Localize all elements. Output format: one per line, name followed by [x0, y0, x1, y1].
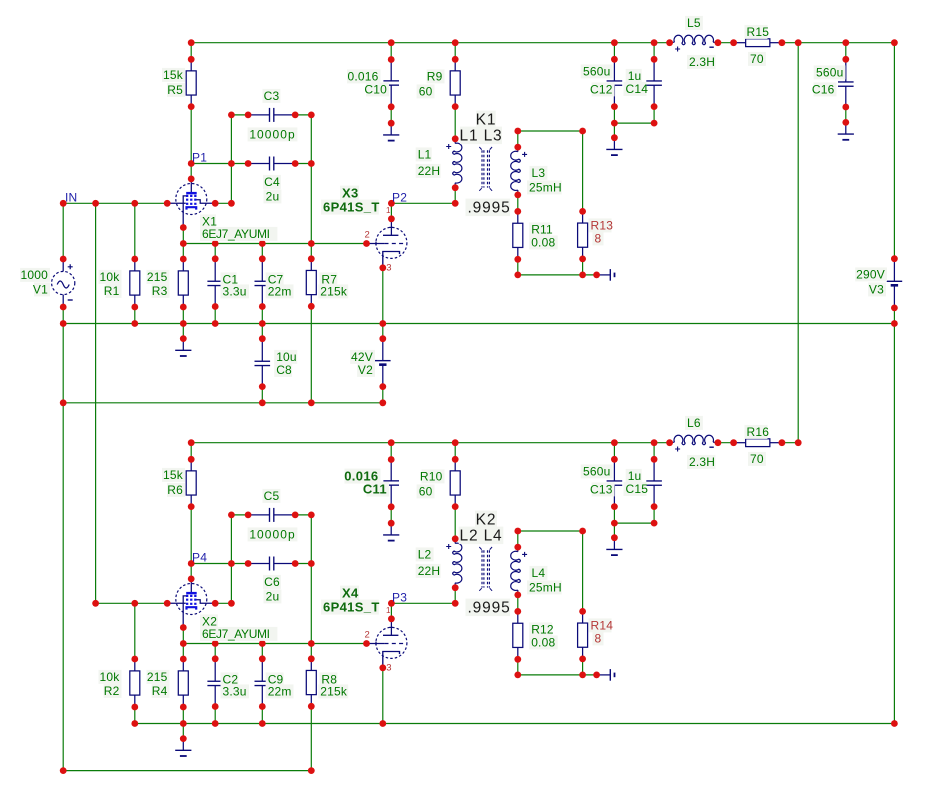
resistor R2: [130, 659, 140, 707]
svg-text:C5: C5: [264, 489, 280, 503]
wire rail to C13: [613, 443, 615, 460]
svg-text:R13: R13: [591, 219, 614, 233]
value label L1 L3: [460, 127, 502, 145]
junction: [188, 176, 195, 183]
wire R6 to P4: [190, 507, 192, 564]
wire rail to C12: [613, 43, 615, 60]
wire to R13: [582, 131, 584, 211]
junction: [180, 720, 187, 727]
wire P1 row left: [191, 163, 248, 165]
wire C1 top: [214, 244, 216, 259]
ground: [597, 269, 615, 281]
value label R3: [152, 284, 170, 298]
junction: [611, 56, 618, 63]
junction: [891, 320, 898, 327]
junction: [308, 767, 315, 774]
junction: [363, 640, 370, 647]
junction: [452, 135, 459, 142]
value label 560u: [814, 65, 846, 79]
junction: [452, 200, 459, 207]
wire C8 bottom: [261, 387, 263, 403]
svg-text:3.3u: 3.3u: [223, 685, 247, 699]
resistor R4: [178, 659, 188, 707]
junction: [60, 399, 67, 406]
junction: [651, 456, 658, 463]
value label C1: [221, 272, 237, 286]
svg-text:C16: C16: [812, 83, 835, 97]
value label C9: [266, 672, 284, 686]
junction: [379, 383, 386, 390]
wire V3 top feed: [893, 43, 895, 259]
junction: [514, 192, 521, 199]
junction: [593, 272, 600, 279]
wire R7 bottom: [310, 306, 312, 403]
junction: [779, 439, 786, 446]
value label C10: [366, 82, 389, 96]
svg-text:R9: R9: [427, 70, 443, 84]
value label 560u: [581, 64, 613, 78]
junction: [212, 600, 219, 607]
svg-text:1000: 1000: [21, 268, 49, 282]
junction: [180, 640, 187, 647]
value label 0.016: [347, 69, 381, 83]
wire rail to R5: [190, 43, 192, 60]
wire rail to C14: [653, 43, 655, 60]
svg-text:C11: C11: [363, 482, 387, 497]
junction: [308, 560, 315, 567]
svg-text:R1: R1: [104, 284, 120, 298]
junction: [579, 208, 586, 215]
junction: [259, 335, 266, 342]
value label R7: [319, 272, 337, 286]
junction: [891, 720, 898, 727]
inductor L3 secondary: [511, 147, 527, 195]
value label 60: [417, 84, 435, 98]
svg-text:22H: 22H: [418, 564, 441, 578]
value label R12: [529, 622, 552, 636]
svg-text:R15: R15: [747, 25, 770, 39]
wire V2 bottom: [382, 387, 384, 403]
wire main rail: [63, 323, 894, 325]
value label R9: [427, 69, 445, 83]
junction: [292, 560, 299, 567]
wire bias rail: [63, 402, 383, 404]
svg-text:560u: 560u: [583, 465, 611, 479]
junction: [180, 224, 187, 231]
junction: [388, 503, 395, 510]
svg-text:70: 70: [750, 452, 764, 466]
svg-text:2: 2: [365, 630, 370, 641]
wire L3 to R11: [517, 195, 519, 212]
junction: [452, 535, 459, 542]
wire R9 to L1: [454, 107, 456, 139]
wire R8 bottom: [310, 706, 312, 770]
svg-text:V2: V2: [358, 363, 373, 377]
value label L5: [685, 16, 703, 30]
value label 42V: [350, 350, 375, 364]
junction: [188, 39, 195, 46]
junction: [259, 383, 266, 390]
resistor R10: [450, 459, 460, 506]
svg-text:.9995: .9995: [468, 200, 511, 217]
value label C8: [274, 363, 292, 377]
wire L4 to R12: [517, 595, 519, 612]
wire R10 to L2: [454, 507, 456, 539]
junction: [379, 264, 386, 271]
junction: [795, 439, 802, 446]
wire X4 cathode: [382, 668, 384, 724]
junction: [180, 335, 187, 342]
junction: [188, 103, 195, 110]
junction: [228, 512, 235, 519]
svg-text:L1: L1: [418, 148, 432, 162]
wire to L3: [517, 131, 519, 147]
wire secondary top: [518, 530, 583, 532]
junction: [452, 439, 459, 446]
value label L2 L4: [459, 527, 504, 545]
value label R4: [152, 684, 170, 698]
junction: [259, 655, 266, 662]
wire C15 down: [653, 507, 655, 523]
svg-text:C10: C10: [364, 83, 387, 97]
junction: [245, 512, 252, 519]
value label 3.3u: [221, 284, 250, 298]
junction: [188, 56, 195, 63]
junction: [131, 256, 138, 263]
value label 2u: [264, 589, 282, 603]
svg-text:R10: R10: [420, 470, 443, 484]
resistor R13: [578, 211, 588, 259]
wire R14 bottom: [582, 659, 584, 675]
svg-text:70: 70: [750, 52, 764, 66]
value label 22H: [416, 564, 441, 578]
wire to anode: [190, 564, 192, 579]
junction: [611, 39, 618, 46]
wire C3 row left: [231, 114, 248, 116]
junction: [188, 560, 195, 567]
svg-text:25mH: 25mH: [529, 181, 562, 195]
value label 6P41S_T: [321, 600, 379, 615]
junction: [308, 255, 315, 262]
wire C7 top: [261, 244, 263, 259]
junction: [180, 304, 187, 311]
capacitor C12: [607, 59, 623, 106]
junction: [60, 304, 67, 311]
wire rail to R6: [190, 443, 192, 460]
wire L-R link: [718, 42, 734, 44]
junction: [60, 767, 67, 774]
junction: [188, 456, 195, 463]
junction: [164, 200, 171, 207]
value label 10k: [99, 270, 122, 284]
junction: [92, 200, 99, 207]
value label R14: [589, 618, 612, 632]
ground: [606, 538, 622, 555]
wire R11 bottom: [517, 259, 519, 275]
junction: [164, 600, 171, 607]
value label 290V: [855, 267, 887, 281]
junction: [651, 103, 658, 110]
svg-text:C13: C13: [590, 483, 613, 497]
svg-text:R3: R3: [152, 284, 168, 298]
junction: [579, 272, 586, 279]
ground: [838, 122, 854, 139]
value label 215k: [318, 284, 348, 298]
junction: [60, 256, 67, 263]
junction: [308, 160, 315, 167]
junction: [388, 103, 395, 110]
value label V3: [868, 282, 886, 296]
svg-text:L3: L3: [532, 166, 546, 180]
svg-text:R16: R16: [747, 425, 770, 439]
wire coupling drop: [310, 515, 312, 644]
wire shared input drop: [95, 203, 97, 603]
wire screen drop: [230, 515, 232, 603]
value label 1u: [626, 69, 642, 83]
junction: [259, 240, 266, 247]
svg-text:K2: K2: [476, 512, 497, 529]
value label 22m: [266, 284, 294, 298]
source V1: [52, 259, 75, 307]
wire R12 bottom: [517, 659, 519, 675]
svg-text:0.08: 0.08: [531, 636, 555, 650]
junction: [611, 120, 618, 127]
capacitor C13: [607, 459, 623, 506]
wire left common drop: [62, 324, 64, 771]
resistor R14: [578, 611, 588, 659]
junction: [651, 120, 658, 127]
value label 10000p: [248, 127, 298, 141]
junction: [666, 39, 673, 46]
value label 70: [748, 52, 766, 66]
wire rail to C11: [390, 443, 392, 460]
junction: [180, 240, 187, 247]
svg-text:R14: R14: [591, 619, 614, 633]
svg-text:3: 3: [386, 262, 391, 273]
junction: [308, 399, 315, 406]
junction: [452, 39, 459, 46]
junction: [891, 305, 898, 312]
svg-text:V3: V3: [869, 283, 884, 297]
wire C5 row right: [295, 514, 311, 516]
inductor L2 primary: [446, 539, 462, 588]
junction: [212, 703, 219, 710]
junction: [452, 456, 459, 463]
value label 8: [593, 631, 604, 645]
value label 22m: [266, 684, 294, 698]
inductor L4 secondary: [511, 547, 527, 595]
junction: [212, 720, 219, 727]
wire C5 row left: [231, 514, 248, 516]
junction: [452, 184, 459, 191]
svg-text:8: 8: [595, 632, 602, 646]
wire top rail left: [191, 42, 669, 44]
junction: [379, 399, 386, 406]
svg-text:22m: 22m: [268, 685, 292, 699]
svg-text:215k: 215k: [320, 285, 348, 299]
junction: [579, 528, 586, 535]
wire cathode row: [183, 243, 366, 245]
capacitor C15: [646, 459, 662, 506]
capacitor C16: [838, 59, 854, 107]
wire screen link: [215, 202, 231, 204]
value label 25mH: [527, 580, 562, 594]
junction: [245, 160, 252, 167]
value label R11: [529, 222, 550, 236]
junction: [259, 255, 266, 262]
svg-text:10u: 10u: [276, 350, 297, 364]
wire L1 to P2: [454, 188, 456, 204]
junction: [212, 655, 219, 662]
junction: [259, 320, 266, 327]
value label C6: [263, 575, 281, 589]
junction: [842, 119, 849, 126]
ground: [606, 138, 622, 155]
wire C12-C14 link: [614, 122, 654, 124]
resistor R12: [513, 611, 523, 659]
junction: [388, 600, 395, 607]
value label C14: [624, 82, 647, 96]
junction: [60, 320, 67, 327]
junction: [259, 720, 266, 727]
junction: [308, 640, 315, 647]
junction: [292, 160, 299, 167]
resistor R16: [734, 439, 782, 447]
junction: [308, 303, 315, 310]
wire top rail right: [782, 442, 798, 444]
wire bottom rail: [63, 770, 311, 772]
junction: [308, 655, 315, 662]
junction: [388, 120, 395, 127]
svg-text:R12: R12: [531, 623, 554, 637]
capacitor C4: [248, 157, 295, 171]
value label C12: [592, 82, 615, 96]
capacitor C11: [383, 460, 399, 507]
junction: [611, 456, 618, 463]
junction: [514, 528, 521, 535]
value label 60: [417, 484, 435, 498]
junction: [388, 520, 395, 527]
value label X1: [200, 214, 216, 228]
value label 560u: [581, 464, 613, 478]
svg-text:1: 1: [386, 206, 391, 215]
capacitor C14: [646, 59, 662, 106]
svg-text:R2: R2: [104, 684, 120, 698]
svg-text:560u: 560u: [816, 66, 844, 80]
wire rail to C10: [390, 43, 392, 60]
svg-text:10k: 10k: [100, 270, 121, 284]
svg-text:0.016: 0.016: [347, 70, 378, 84]
junction: [388, 39, 395, 46]
wire C8 top: [261, 324, 263, 339]
svg-text:C14: C14: [626, 82, 649, 96]
junction: [651, 56, 658, 63]
junction: [593, 672, 600, 679]
junction: [842, 56, 849, 63]
value label 3.3u: [221, 684, 250, 698]
wire V1 top: [62, 203, 64, 259]
value label .9995: [466, 199, 511, 217]
tube X2 6EJ7: [167, 579, 215, 628]
junction: [212, 640, 219, 647]
svg-text:22m: 22m: [268, 285, 292, 299]
resistor R15: [734, 39, 782, 47]
value label 10u: [274, 350, 297, 364]
value label 6EJ7_AYUMI: [200, 227, 277, 241]
wire secondary top: [518, 130, 583, 132]
resistor R9: [450, 59, 460, 106]
svg-text:2.3H: 2.3H: [689, 455, 715, 469]
value label L3: [530, 166, 548, 180]
wire C16 down: [845, 107, 847, 122]
resistor R5: [186, 59, 196, 106]
wire R3 bottom: [182, 307, 184, 324]
value label 1000: [20, 268, 50, 282]
wire P4 row right: [295, 563, 311, 565]
junction: [212, 320, 219, 327]
junction: [388, 215, 395, 222]
wire cathode row: [183, 643, 366, 645]
wire R2 top: [134, 603, 136, 659]
junction: [292, 112, 299, 119]
wire rail to R10: [454, 443, 456, 460]
svg-text:IN: IN: [65, 191, 77, 205]
svg-text:C6: C6: [264, 575, 280, 589]
svg-text:C12: C12: [590, 83, 613, 97]
resistor R11: [513, 211, 523, 259]
junction: [611, 134, 618, 141]
wire P1 row right: [295, 163, 311, 165]
value label R8: [319, 672, 337, 686]
svg-text:L6: L6: [687, 416, 701, 430]
junction: [651, 39, 658, 46]
junction: [131, 720, 138, 727]
wire main rail: [135, 723, 895, 725]
junction: [611, 520, 618, 527]
value label C3: [263, 89, 281, 103]
tube X3 6P41S: [367, 219, 407, 268]
wire R2 bottom: [134, 707, 136, 724]
value label 6P41S_T: [321, 200, 379, 215]
wire C11 to ground: [390, 507, 392, 523]
junction: [228, 600, 235, 607]
wire R1 bottom: [134, 307, 136, 324]
capacitor C3: [248, 108, 295, 122]
value label K2: [475, 511, 497, 528]
svg-text:V1: V1: [33, 283, 48, 297]
wire C13-C15 link: [614, 522, 654, 524]
svg-text:L1 L3: L1 L3: [459, 128, 502, 145]
junction: [379, 664, 386, 671]
junction: [388, 439, 395, 446]
wire to ground: [182, 724, 184, 739]
svg-text:25mH: 25mH: [529, 581, 562, 595]
inductor L1 primary: [446, 139, 462, 188]
wire rail to R9: [454, 43, 456, 60]
value label 1u: [626, 469, 642, 483]
svg-text:L4: L4: [532, 566, 546, 580]
wire C9 bottom: [261, 707, 263, 724]
junction: [514, 128, 521, 135]
wire cathode to R: [182, 628, 184, 660]
junction: [188, 576, 195, 583]
value label X2: [200, 614, 218, 628]
junction: [514, 656, 521, 663]
svg-text:10000p: 10000p: [249, 128, 295, 142]
value label X3: [340, 186, 359, 201]
svg-text:R11: R11: [531, 223, 553, 237]
svg-text:6P41S_T: 6P41S_T: [323, 200, 380, 215]
